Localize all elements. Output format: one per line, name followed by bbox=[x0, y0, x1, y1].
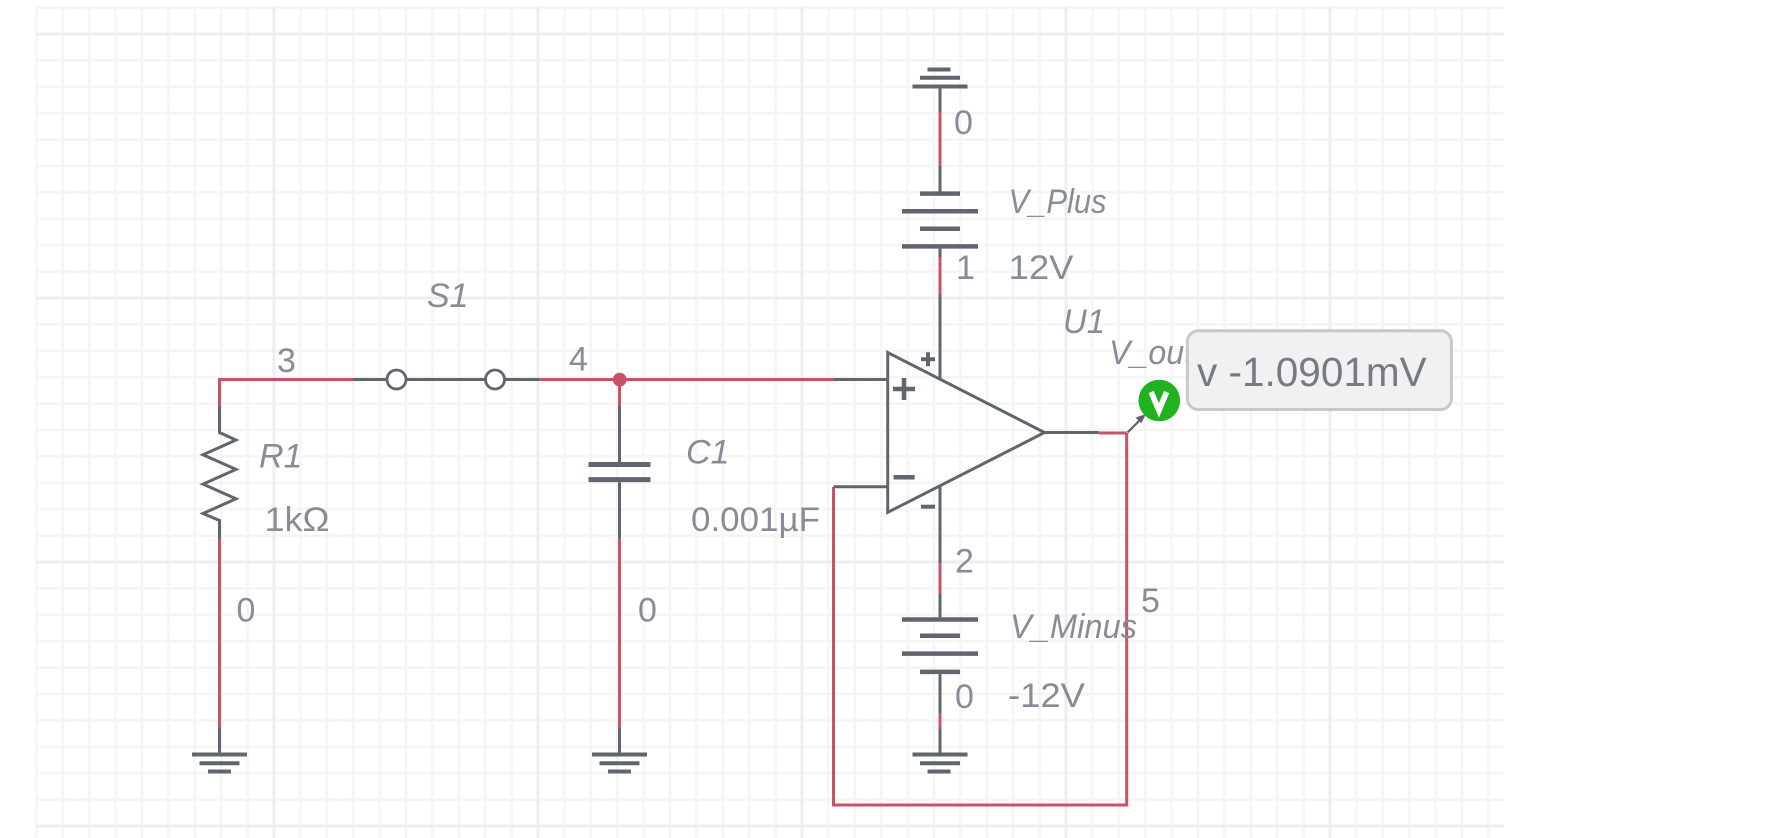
voltage probe circle bbox=[1139, 380, 1181, 422]
op-amp + input pin lead bbox=[834, 378, 888, 381]
wire net 5: feedback loop output to inverting input (red) bbox=[834, 433, 1127, 805]
svg-text:V_Minus: V_Minus bbox=[1010, 608, 1137, 646]
op-amp V- power pin bbox=[939, 486, 942, 564]
svg-text:1kΩ: 1kΩ bbox=[265, 501, 330, 539]
op-amp output pin lead bbox=[1045, 431, 1099, 434]
op-amp - input pin lead bbox=[834, 485, 888, 488]
svg-text:12V: 12V bbox=[1009, 249, 1074, 287]
svg-text:V_Plus: V_Plus bbox=[1009, 183, 1107, 221]
svg-text:0: 0 bbox=[237, 592, 256, 630]
switch S1 (closed) bbox=[354, 370, 540, 389]
resistor R1 bbox=[203, 406, 236, 539]
capacitor C1 bbox=[589, 406, 651, 539]
svg-text:2: 2 bbox=[955, 543, 974, 581]
probe v letter bbox=[1151, 392, 1166, 411]
op-amp V+ power pin bbox=[939, 294, 942, 379]
svg-text:S1: S1 bbox=[427, 277, 469, 315]
wire net 0: V_Minus bottom to ground (red) bbox=[939, 714, 942, 729]
battery V_Minus bbox=[902, 594, 978, 714]
svg-text:1: 1 bbox=[956, 249, 975, 287]
wire net 4: S1 right to op-amp + input (red) bbox=[539, 378, 834, 381]
wire net 1: V_Plus to op-amp V+ pin (red) bbox=[939, 257, 942, 294]
wire net 4 branch: junction down to C1 (red) bbox=[618, 380, 621, 407]
svg-text:5: 5 bbox=[1141, 582, 1160, 620]
wire net 2: op-amp V- pin to V_Minus (red) bbox=[939, 564, 942, 594]
svg-text:U1: U1 bbox=[1063, 303, 1105, 341]
ground symbol under V_Minus bbox=[913, 729, 968, 772]
svg-text:3: 3 bbox=[277, 342, 296, 380]
op-amp U1 bbox=[834, 294, 1099, 564]
- sign inverting input bbox=[894, 475, 915, 480]
+ sign noninverting input bbox=[893, 378, 915, 400]
svg-text:0: 0 bbox=[638, 592, 657, 630]
wire net 3: R1 top to S1 left (red) bbox=[220, 380, 354, 407]
wire net 0: C1 bottom to ground (red) bbox=[618, 539, 621, 729]
ground symbol under R1 bbox=[192, 728, 247, 772]
junction node 4 dot bbox=[613, 373, 627, 387]
small - sign V- power bbox=[921, 505, 935, 509]
svg-text:v -1.0901mV: v -1.0901mV bbox=[1197, 349, 1427, 395]
svg-text:0.001µF: 0.001µF bbox=[691, 501, 820, 539]
svg-text:0: 0 bbox=[955, 678, 974, 716]
ground symbol under C1 bbox=[592, 728, 647, 772]
ground symbol top (above V_Plus) bbox=[913, 70, 968, 113]
probe pointer line with arrowhead bbox=[1128, 421, 1140, 433]
wire net 0: top ground to V_Plus (red) bbox=[939, 112, 942, 166]
svg-text:V_out: V_out bbox=[1109, 334, 1194, 372]
svg-text:0: 0 bbox=[954, 104, 973, 142]
svg-text:C1: C1 bbox=[686, 434, 729, 472]
tooltip box bbox=[1187, 331, 1451, 410]
battery V_Plus bbox=[902, 166, 978, 257]
svg-text:4: 4 bbox=[569, 341, 588, 379]
wire net 0: R1 bottom to ground (red) bbox=[218, 539, 221, 729]
svg-text:-12V: -12V bbox=[1008, 677, 1085, 715]
svg-text:R1: R1 bbox=[259, 438, 302, 476]
small + sign V+ power bbox=[921, 352, 935, 366]
